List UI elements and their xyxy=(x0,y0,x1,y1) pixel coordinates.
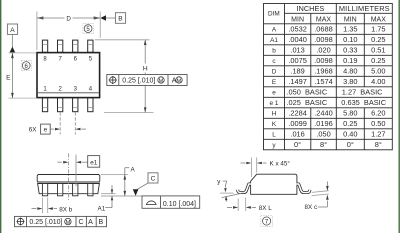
pin 7 xyxy=(58,40,63,52)
pin 6 xyxy=(73,40,78,52)
svg-text:0.25: 0.25 xyxy=(371,35,385,44)
end view right lead xyxy=(297,184,310,193)
svg-text:E: E xyxy=(6,75,11,82)
front view lead 3 xyxy=(73,184,78,196)
svg-text:.020: .020 xyxy=(316,45,330,54)
pin numbers top row xyxy=(43,56,92,92)
front view lead 4 xyxy=(88,184,93,196)
svg-text:.2284: .2284 xyxy=(288,108,307,117)
svg-text:e: e xyxy=(272,89,276,96)
feature control frame (top): position 0.25 [.010] M A M xyxy=(107,75,187,86)
svg-text:D: D xyxy=(66,15,71,22)
flatness feature control frame 0.10 [.004] xyxy=(142,196,200,208)
front view lead 2 xyxy=(58,184,63,196)
svg-text:0.10: 0.10 xyxy=(343,35,357,44)
datum B xyxy=(100,13,125,24)
svg-text:0.635 BASIC: 0.635 BASIC xyxy=(341,98,386,107)
seating plane line xyxy=(101,195,142,197)
svg-text:DIM: DIM xyxy=(268,11,280,18)
svg-text:.050 BASIC: .050 BASIC xyxy=(287,87,328,96)
svg-text:MIN: MIN xyxy=(291,17,304,24)
right page border (green) xyxy=(398,0,400,233)
svg-text:K x 45°: K x 45° xyxy=(270,160,291,168)
datum C xyxy=(133,173,158,196)
svg-text:4.00: 4.00 xyxy=(371,77,385,86)
datum A xyxy=(7,24,17,52)
svg-text:MIN: MIN xyxy=(344,17,357,24)
dimension 6X e xyxy=(29,112,86,134)
svg-text:0.51: 0.51 xyxy=(371,45,385,54)
svg-text:.013: .013 xyxy=(290,45,304,54)
table text xyxy=(268,4,390,149)
dimension 8X L xyxy=(227,198,272,212)
svg-text:.0099: .0099 xyxy=(288,119,307,128)
dimension K x 45 xyxy=(241,158,291,178)
svg-text:.025 BASIC: .025 BASIC xyxy=(287,98,328,107)
svg-text:3.80: 3.80 xyxy=(343,77,357,86)
svg-text:1.75: 1.75 xyxy=(371,24,385,33)
svg-text:A: A xyxy=(272,26,277,33)
top view package body xyxy=(37,53,100,98)
svg-text:4.80: 4.80 xyxy=(343,66,357,75)
svg-text:A: A xyxy=(88,219,93,226)
svg-text:0.25: 0.25 xyxy=(343,119,357,128)
svg-text:1.27: 1.27 xyxy=(371,129,385,138)
svg-text:e 1: e 1 xyxy=(270,100,279,107)
svg-text:MAX: MAX xyxy=(316,17,332,24)
svg-text:0.40: 0.40 xyxy=(343,129,357,138)
svg-text:.0098: .0098 xyxy=(314,35,333,44)
svg-text:MILLIMETERS: MILLIMETERS xyxy=(339,4,390,13)
svg-text:INCHES: INCHES xyxy=(296,4,324,13)
svg-text:0.50: 0.50 xyxy=(371,119,385,128)
svg-text:C: C xyxy=(78,219,83,226)
svg-text:0°: 0° xyxy=(294,140,301,149)
svg-text:.1574: .1574 xyxy=(314,77,333,86)
svg-text:.1968: .1968 xyxy=(314,66,333,75)
svg-text:.0040: .0040 xyxy=(288,35,307,44)
svg-text:0.19: 0.19 xyxy=(343,56,357,65)
svg-text:A1: A1 xyxy=(270,37,278,44)
svg-text:0.10 [.004]: 0.10 [.004] xyxy=(163,201,196,208)
pin 3 xyxy=(73,98,78,112)
svg-text:B: B xyxy=(118,16,123,23)
svg-text:5.80: 5.80 xyxy=(343,108,357,117)
front view package body xyxy=(37,175,100,194)
dimension A xyxy=(101,167,135,197)
svg-text:0.25 [.010]: 0.25 [.010] xyxy=(29,219,62,226)
svg-text:.0532: .0532 xyxy=(288,24,307,33)
svg-text:H: H xyxy=(143,66,148,73)
svg-text:H: H xyxy=(272,110,277,117)
svg-text:0°: 0° xyxy=(347,140,354,149)
end view left lead xyxy=(238,184,251,193)
svg-text:8°: 8° xyxy=(375,140,382,149)
note 6 xyxy=(21,61,31,71)
svg-text:0.33: 0.33 xyxy=(343,45,357,54)
dimension A1 xyxy=(98,185,116,212)
pin 3 centerline xyxy=(75,155,77,187)
svg-text:8X L: 8X L xyxy=(259,205,272,212)
svg-text:M: M xyxy=(177,78,182,84)
note 5 xyxy=(83,24,93,34)
svg-text:C: C xyxy=(151,176,156,183)
svg-text:8X b: 8X b xyxy=(59,207,72,214)
svg-text:.050: .050 xyxy=(316,129,330,138)
pin 8 xyxy=(42,40,47,52)
svg-text:.0688: .0688 xyxy=(314,24,333,33)
svg-text:.0098: .0098 xyxy=(314,56,333,65)
dimension H xyxy=(95,40,154,113)
svg-text:1.27 BASIC: 1.27 BASIC xyxy=(342,87,383,96)
dimension D xyxy=(37,12,100,51)
svg-text:M: M xyxy=(66,220,71,226)
svg-text:K: K xyxy=(272,121,277,128)
front view lead 1 xyxy=(42,184,47,196)
svg-text:0.25: 0.25 xyxy=(371,56,385,65)
svg-text:A1: A1 xyxy=(98,205,106,212)
svg-text:.1497: .1497 xyxy=(288,77,307,86)
svg-text:6.20: 6.20 xyxy=(371,108,385,117)
dimension 8X b xyxy=(32,198,73,214)
svg-text:E: E xyxy=(272,79,276,86)
dimension table xyxy=(264,4,393,150)
dimension E xyxy=(6,53,36,98)
svg-text:.0075: .0075 xyxy=(288,56,307,65)
svg-text:8°: 8° xyxy=(320,140,327,149)
svg-text:8X c: 8X c xyxy=(305,204,318,211)
svg-text:0.25 [.010]: 0.25 [.010] xyxy=(122,78,155,85)
svg-text:A: A xyxy=(10,27,15,34)
svg-text:.189: .189 xyxy=(290,66,304,75)
svg-text:B: B xyxy=(98,219,103,226)
package centerline xyxy=(67,154,69,201)
pin 5 xyxy=(88,40,93,52)
svg-text:.016: .016 xyxy=(290,129,304,138)
svg-text:L: L xyxy=(272,131,276,138)
svg-text:5.00: 5.00 xyxy=(371,66,385,75)
svg-text:b: b xyxy=(272,47,276,54)
dimension e1 xyxy=(58,156,100,168)
dimension 8X c xyxy=(305,182,329,211)
svg-text:e: e xyxy=(44,127,48,134)
pin 2 xyxy=(58,98,63,112)
pin 1 xyxy=(42,98,47,112)
feature control frame (bottom): position 0.25 [.010] M C A B xyxy=(15,216,107,226)
svg-text:1.35: 1.35 xyxy=(343,24,357,33)
left page border (green) xyxy=(0,0,2,233)
svg-text:M: M xyxy=(159,78,164,84)
svg-text:6X: 6X xyxy=(29,127,38,134)
svg-text:MAX: MAX xyxy=(371,17,387,24)
svg-text:.0196: .0196 xyxy=(314,119,333,128)
note 7 xyxy=(261,216,273,227)
pin 4 xyxy=(88,98,93,112)
end view package body xyxy=(251,174,297,194)
angle y xyxy=(217,178,243,201)
svg-text:e1: e1 xyxy=(90,159,98,166)
svg-text:.2440: .2440 xyxy=(314,108,333,117)
svg-text:D: D xyxy=(272,68,277,75)
